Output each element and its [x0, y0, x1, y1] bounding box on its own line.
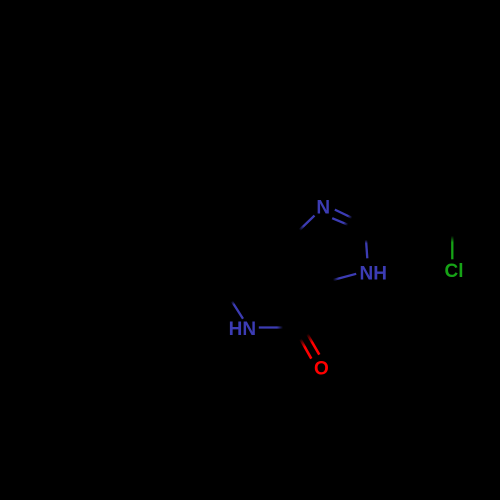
bond N5H-C6 (blue half)	[232, 301, 243, 319]
svg-text:N: N	[316, 198, 330, 219]
svg-text:O: O	[314, 358, 329, 379]
bond N1=C2 outer line (imidazole, blue half)	[335, 210, 352, 218]
bond C4=O right line (red half)	[307, 334, 319, 355]
bond C4=O left line (red half)	[300, 339, 311, 359]
bond N1-C7a (blue half)	[300, 216, 315, 230]
bond N5H-C4 (blue half)	[259, 326, 283, 328]
bond C2-N3H (blue half)	[366, 240, 367, 258]
bond N1=C2 inner line (imidazole, blue half)	[332, 218, 348, 225]
svg-text:HN: HN	[229, 319, 256, 340]
bond N3H-C3a (blue half)	[333, 274, 356, 280]
svg-text:Cl: Cl	[445, 261, 464, 282]
bond C-Cl (green half)	[451, 236, 453, 259]
svg-text:NH: NH	[360, 264, 387, 285]
